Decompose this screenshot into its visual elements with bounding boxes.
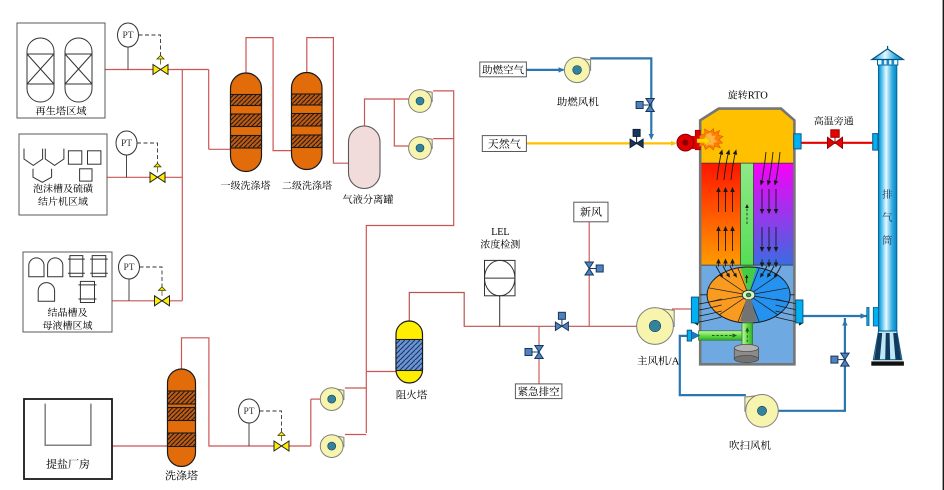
flanged vessel 2	[92, 256, 106, 277]
fan washer fan 1	[331, 388, 344, 400]
screenshot edge line	[943, 0, 944, 490]
fan purge fan	[745, 395, 763, 411]
valve fresh air	[585, 262, 593, 275]
tower washing tower	[168, 369, 196, 467]
wire separator top to fans	[365, 99, 409, 127]
hopper 1	[24, 149, 43, 166]
wire flame arrestor feed	[366, 371, 398, 373]
svg-text:PT: PT	[243, 407, 254, 417]
svg-text:PT: PT	[122, 31, 133, 41]
svg-text:RTO: RTO	[748, 91, 769, 102]
instrument PT1	[118, 23, 139, 47]
wire RTO outlet to stack	[803, 315, 867, 317]
box natural gas	[482, 136, 526, 152]
wire box1 outlet header y69.5	[105, 69, 209, 71]
wire fan2 outlet	[433, 138, 454, 140]
green purge pipe horizontal	[699, 331, 748, 340]
flange RTO top bypass	[794, 134, 801, 149]
fan main fan A	[654, 308, 674, 327]
stack exhaust	[879, 65, 897, 335]
burner	[695, 130, 700, 149]
box regeneration tower area	[17, 23, 105, 118]
instrument PT4	[239, 399, 260, 423]
box salt extraction plant	[24, 399, 112, 479]
instrument LEL detector	[485, 260, 516, 295]
center channel dashed arrow	[746, 207, 748, 224]
box crystallizer area	[23, 252, 112, 332]
fan combustion air fan	[576, 58, 591, 71]
green purge pipe vertical	[742, 323, 753, 347]
wire natural gas line	[526, 142, 675, 144]
box emergency vent	[515, 384, 562, 399]
tower primary scrubber	[231, 73, 262, 172]
wire fan1 outlet	[366, 91, 453, 433]
instrument PT3	[119, 255, 140, 279]
svg-text:LEL: LEL	[491, 227, 509, 238]
flanged vessel 3	[80, 281, 94, 302]
square tank 2	[88, 151, 101, 164]
wire fan3/4 inlet manifold	[310, 399, 312, 446]
arch tank 2	[48, 258, 63, 277]
hopper 3	[33, 169, 52, 183]
signal dashed PT3	[140, 267, 163, 288]
wire box2 outlet y177.3	[107, 176, 182, 178]
svg-text:/A: /A	[669, 356, 680, 368]
flange stack bypass	[873, 134, 878, 151]
wire drop to tower1 x208.7	[208, 70, 210, 150]
flanged vessel 1	[70, 256, 83, 277]
wire combustion fan outlet to gas line	[590, 58, 651, 136]
wire high-temp bypass line	[801, 142, 873, 144]
valve V4	[274, 441, 289, 451]
rotary distributor wheel	[707, 267, 749, 323]
burner flame	[699, 129, 723, 151]
vessel gas-liquid separator	[349, 126, 381, 189]
valve emergency vent	[535, 346, 543, 359]
vessel regen tower 1	[27, 38, 54, 102]
wire collector riser x182.3	[181, 70, 183, 301]
box fresh air	[574, 202, 608, 222]
flow arrows	[695, 151, 803, 325]
valve V3	[155, 296, 170, 306]
fan separator fan 2	[419, 137, 432, 149]
square tank 3	[80, 169, 92, 181]
signal dashed PT4	[260, 411, 282, 433]
flange RTO inlet	[691, 297, 698, 323]
wire purge air loop	[680, 336, 746, 395]
flange stack inlet	[867, 308, 869, 326]
tower flame arrestor	[396, 321, 423, 383]
svg-text:PT: PT	[123, 263, 134, 273]
wire box4 line to washing tower	[112, 445, 168, 447]
RTO rotary RTO vessel	[700, 109, 794, 164]
signal dashed PT1	[139, 35, 161, 56]
square tank 1	[68, 151, 81, 164]
wire combustion air line	[526, 69, 563, 71]
wire tower2 top to separator	[307, 38, 350, 164]
wire arrestor to main line	[409, 293, 637, 327]
tower secondary scrubber	[292, 72, 323, 169]
flange RTO purge inlet	[687, 330, 691, 341]
instrument stems	[127, 47, 129, 70]
valve V1	[153, 65, 168, 75]
box combustion air	[480, 62, 527, 77]
wire emergency vent branch	[538, 326, 540, 384]
valve natural gas	[630, 139, 643, 147]
arch tank 1	[29, 258, 44, 277]
wire fresh air branch	[588, 222, 590, 326]
flange RTO outlet	[796, 300, 803, 323]
wire box3 outlet y300.8	[112, 300, 182, 302]
valve high-temp bypass	[828, 137, 843, 148]
valve V2	[150, 172, 165, 182]
wire fan3 outlet	[345, 387, 366, 389]
fan washer fan 2	[331, 435, 344, 447]
wire washing tower top loop	[182, 338, 311, 446]
vessel regen tower 2	[65, 38, 92, 102]
signal dashed PT2	[137, 143, 158, 164]
hopper 2	[45, 149, 64, 166]
fan separator fan 1	[419, 90, 432, 102]
arch tank 3	[38, 283, 54, 302]
box foam tank and sulfur area	[19, 134, 107, 215]
svg-text:PT: PT	[121, 139, 132, 149]
instrument PT2	[116, 131, 137, 155]
U channel	[45, 404, 91, 446]
valve main line	[555, 322, 568, 330]
wire tower1 top to tower2	[246, 38, 293, 151]
valve purge line	[841, 353, 849, 366]
wire fan4 outlet	[345, 434, 366, 436]
valve combustion air	[646, 99, 654, 112]
wire main fan outlet to RTO	[672, 308, 691, 310]
pedestal	[734, 348, 758, 359]
